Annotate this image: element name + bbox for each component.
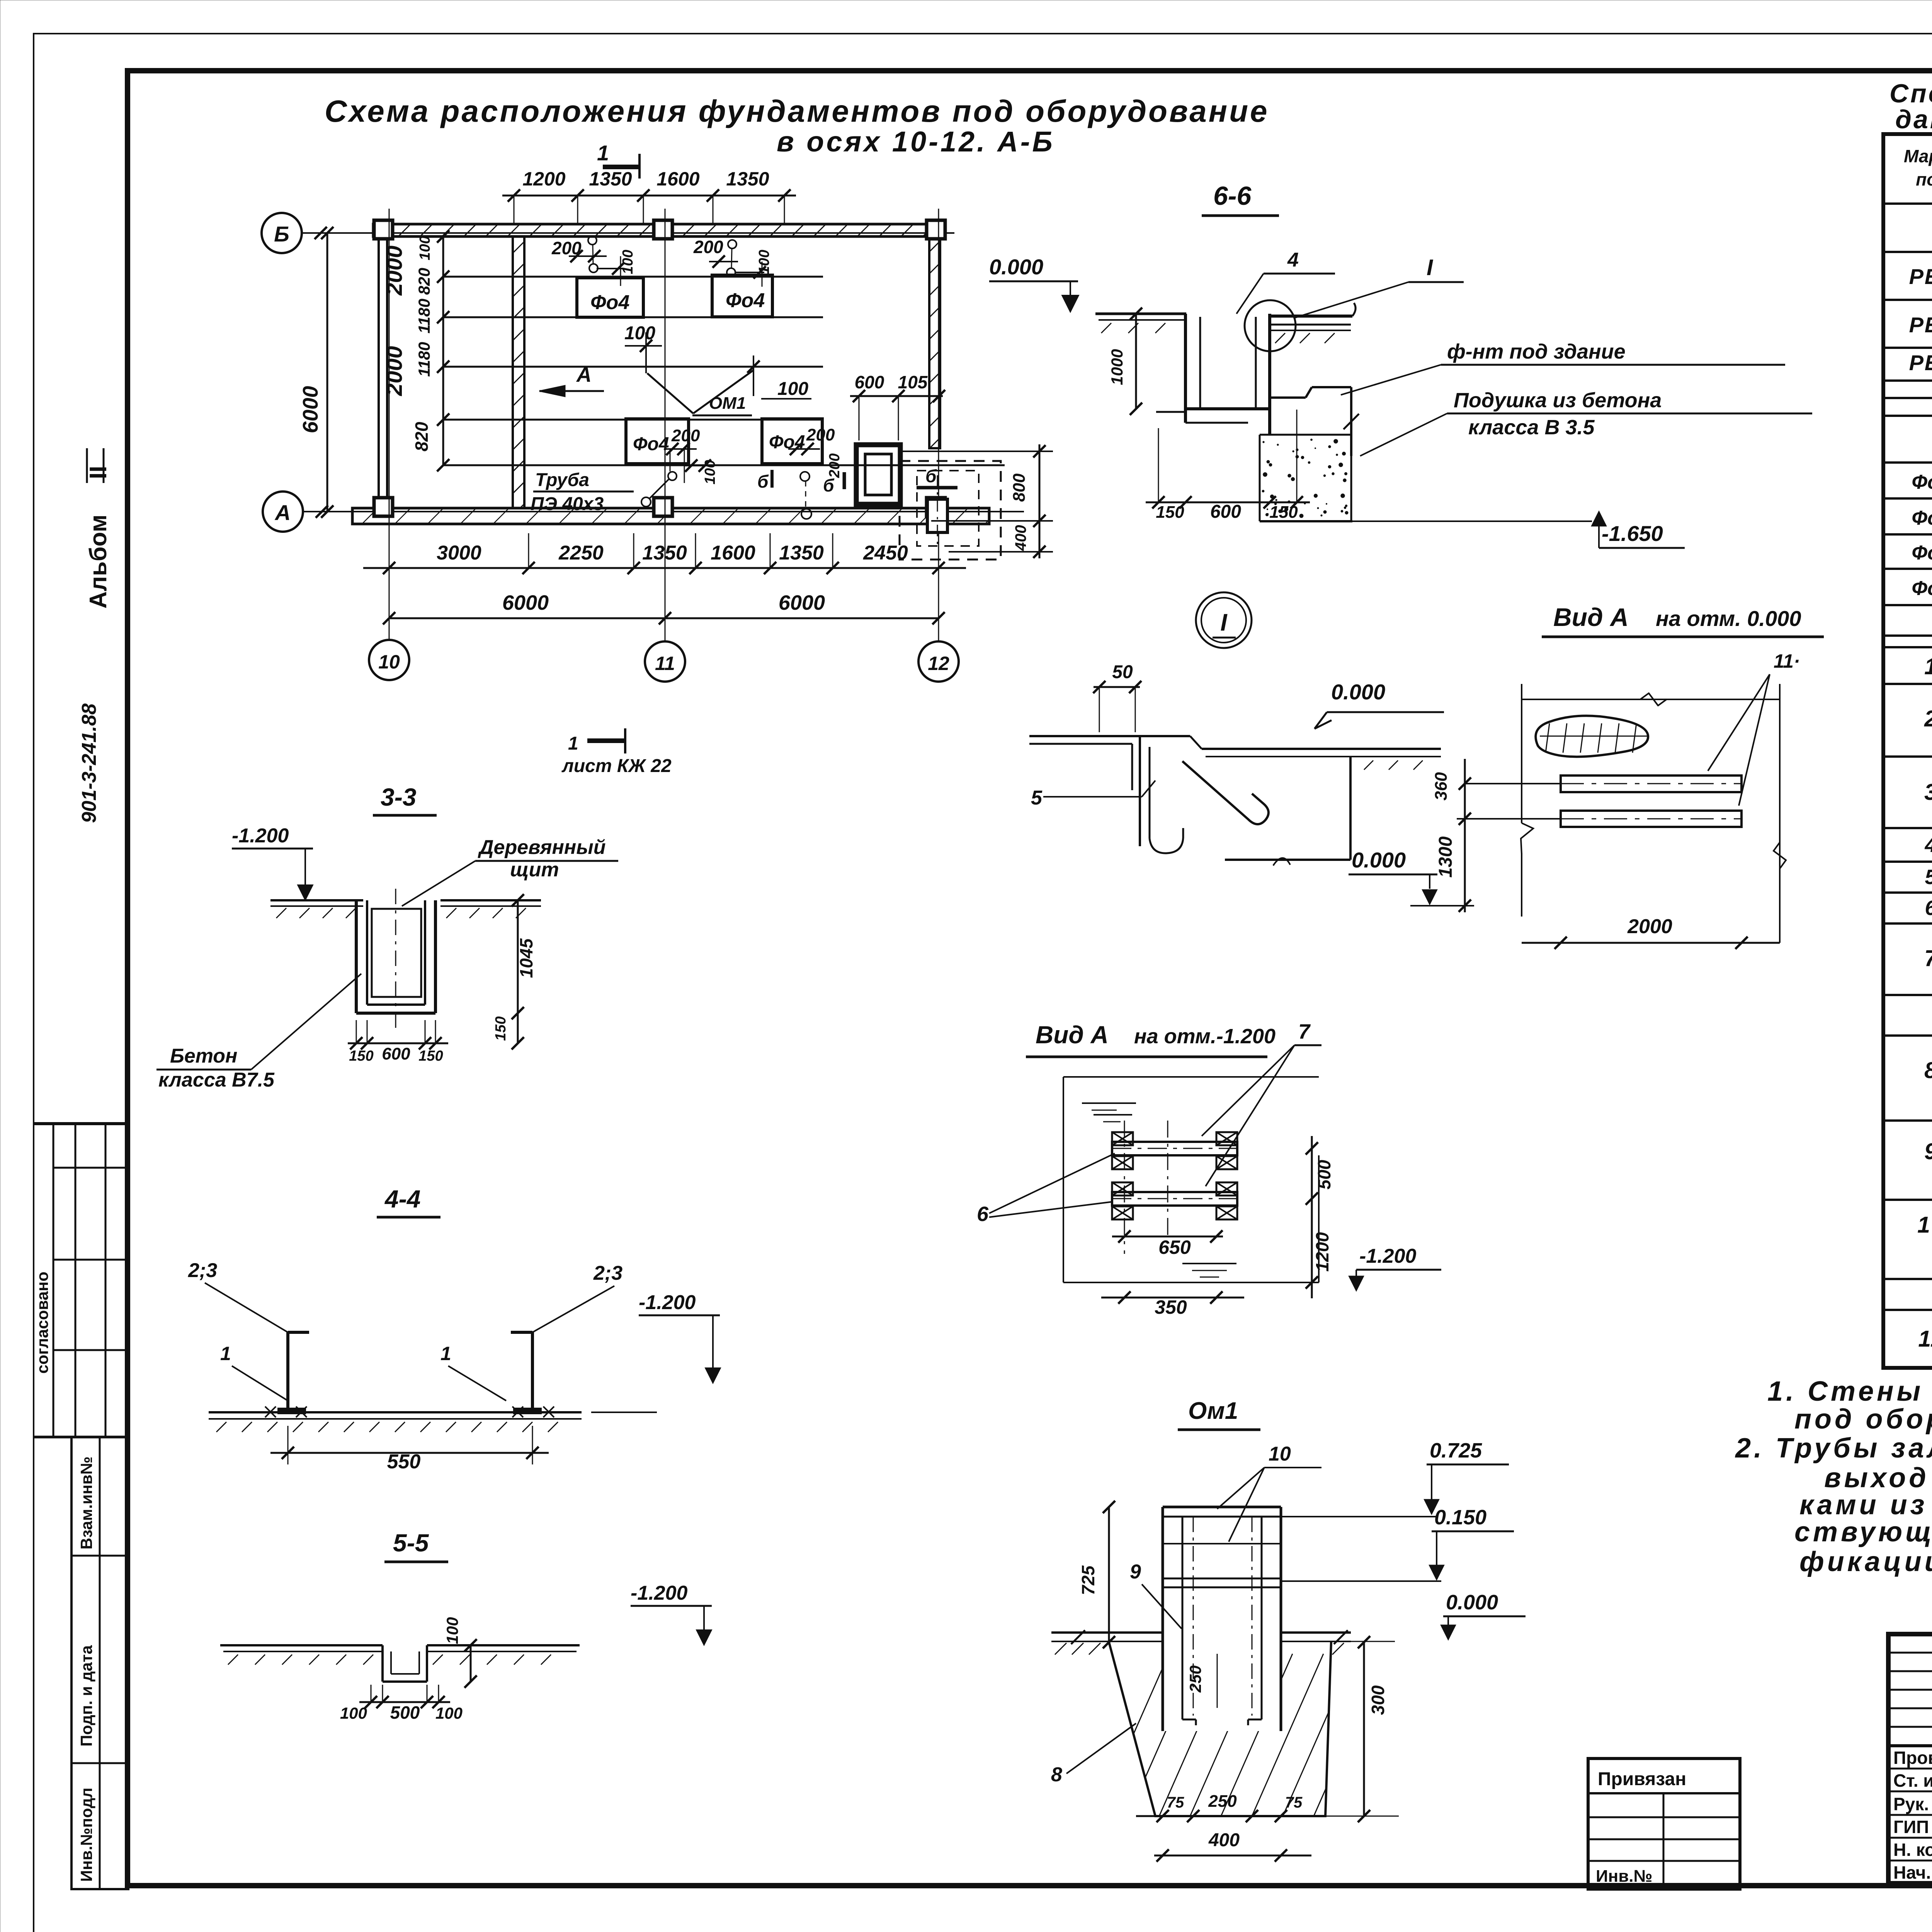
pit (thick square) [856, 445, 900, 504]
svg-text:10: 10 [378, 651, 400, 673]
svg-text:100: 100 [340, 1704, 367, 1722]
svg-text:100: 100 [777, 379, 808, 399]
bottom dim chain row1 [363, 567, 966, 569]
svg-text:6: 6 [977, 1202, 989, 1226]
svg-text:1350: 1350 [642, 542, 687, 564]
leader Om1 [647, 373, 693, 413]
svg-text:Н. контр: Н. контр [1893, 1840, 1932, 1860]
post outline [1163, 1506, 1281, 1509]
svg-text:400: 400 [1012, 525, 1029, 551]
svg-text:100: 100 [435, 1704, 463, 1722]
excavation trapezoid [1109, 1642, 1331, 1816]
foundation Fo4 box 3 [626, 419, 689, 464]
svg-text:фикации на листах ЭАД.: фикации на листах ЭАД. [1799, 1546, 1932, 1577]
svg-text:250: 250 [1186, 1665, 1204, 1693]
floor band hatch [1055, 1643, 1066, 1655]
svg-text:0.000: 0.000 [1352, 848, 1406, 872]
svg-text:поз: поз [1916, 169, 1932, 189]
svg-text:Фо4: Фо4 [590, 291, 629, 314]
dims 1045 150 [517, 900, 519, 1043]
svg-text:ф-нт под здание: ф-нт под здание [1447, 340, 1626, 363]
svg-text:4-4: 4-4 [384, 1185, 421, 1213]
privyazan table [1588, 1759, 1740, 1889]
loaf shaped part [1536, 716, 1648, 757]
dim 550 [270, 1452, 549, 1454]
svg-text:А: А [576, 363, 592, 386]
bar 2 with pads [1112, 1192, 1237, 1206]
svg-text:6000: 6000 [502, 591, 549, 614]
left wall [378, 236, 380, 499]
svg-text:6: 6 [1925, 896, 1932, 920]
svg-text:Подушка из бетона: Подушка из бетона [1454, 389, 1662, 412]
svg-text:Вид А: Вид А [1553, 603, 1629, 631]
detail I circle mark [1196, 592, 1252, 648]
svg-text:РЕ4: РЕ4 [1909, 313, 1932, 337]
top wall (axis B) [373, 224, 945, 236]
svg-text:200: 200 [693, 237, 723, 257]
svg-text:на отм.-1.200: на отм.-1.200 [1134, 1025, 1276, 1048]
column squares [374, 220, 393, 239]
foundation step [1270, 396, 1306, 399]
svg-text:1: 1 [597, 141, 609, 165]
svg-text:2;3: 2;3 [188, 1259, 217, 1282]
svg-text:7: 7 [1298, 1020, 1311, 1043]
dims 150 600 150 [348, 1043, 448, 1044]
dims 75 250 75 [1136, 1815, 1310, 1817]
svg-text:б: б [925, 466, 937, 486]
svg-text:Рук. гр.: Рук. гр. [1893, 1794, 1932, 1814]
floor lines [1051, 1631, 1163, 1634]
floor right of pit [1270, 315, 1352, 318]
svg-text:200: 200 [806, 425, 835, 444]
svg-text:Вид А: Вид А [1036, 1021, 1109, 1049]
svg-text:1350: 1350 [779, 542, 824, 564]
svg-text:Взам.инв№: Взам.инв№ [77, 1456, 95, 1549]
dim 650 [1112, 1236, 1223, 1238]
svg-text:Марка: Марка [1904, 146, 1932, 166]
svg-text:Фо1: Фо1 [1912, 471, 1932, 493]
svg-text:-1.200: -1.200 [631, 1582, 688, 1604]
svg-text:1600: 1600 [656, 168, 699, 190]
dim 350 [1101, 1297, 1244, 1299]
svg-text:II: II [85, 466, 112, 479]
floor lines 4-4 [209, 1411, 582, 1413]
svg-text:600: 600 [855, 372, 884, 392]
svg-text:100: 100 [417, 236, 433, 260]
axis circle B [262, 213, 302, 253]
svg-text:6000: 6000 [779, 591, 825, 614]
svg-text:3: 3 [1924, 779, 1932, 805]
svg-text:725: 725 [1078, 1565, 1098, 1595]
ground line 5-5 [220, 1644, 383, 1646]
svg-text:200: 200 [827, 453, 843, 478]
svg-text:класса В 3.5: класса В 3.5 [1468, 416, 1595, 439]
svg-text:10: 10 [1917, 1212, 1932, 1238]
svg-text:2. Трубы заложить в бетон: 2. Трубы заложить в бетонной подготовке … [1735, 1433, 1932, 1464]
wall axis 12 [929, 236, 940, 448]
svg-text:6000: 6000 [298, 386, 322, 433]
svg-text:Подп. и дата: Подп. и дата [77, 1645, 95, 1747]
svg-text:100: 100 [756, 250, 772, 274]
svg-text:ПЭ 40х3: ПЭ 40х3 [531, 494, 604, 514]
svg-text:-1.650: -1.650 [1602, 521, 1663, 546]
svg-text:Фо4: Фо4 [1912, 577, 1932, 600]
left dim 6000 [327, 233, 328, 512]
svg-text:-1.200: -1.200 [1359, 1245, 1417, 1267]
svg-text:-1.200: -1.200 [232, 825, 289, 847]
svg-text:ОМ1: ОМ1 [709, 394, 746, 413]
svg-text:ствующего диаметра. Трубы у: ствующего диаметра. Трубы учтены в специ… [1794, 1517, 1932, 1548]
svg-text:3000: 3000 [437, 542, 481, 564]
foundation Fo4 box 4 [762, 419, 822, 464]
svg-text:РЕ5: РЕ5 [1909, 350, 1932, 375]
svg-text:РЕ3: РЕ3 [1909, 264, 1932, 289]
axis verticals 10 11 12 [389, 209, 390, 638]
x pads [1112, 1132, 1133, 1145]
rotated dims 800 400 [902, 451, 1053, 452]
svg-text:Бетон: Бетон [170, 1045, 237, 1067]
svg-text:1350: 1350 [726, 168, 769, 190]
svg-text:0.000: 0.000 [1446, 1591, 1498, 1614]
svg-text:150: 150 [493, 1016, 509, 1041]
svg-text:Нач. отд: Нач. отд [1893, 1862, 1932, 1883]
dim 725 [1108, 1507, 1110, 1642]
title block (stamp) [1888, 1634, 1932, 1883]
svg-text:1: 1 [220, 1343, 231, 1364]
svg-text:820: 820 [415, 268, 433, 295]
svg-text:7: 7 [1924, 946, 1932, 971]
svg-text:1600: 1600 [711, 542, 755, 564]
svg-text:Фо4: Фо4 [633, 434, 669, 454]
svg-text:Схема расположения фундамент: Схема расположения фундаментов под обору… [325, 94, 1269, 128]
svg-text:1200: 1200 [1312, 1232, 1332, 1272]
svg-text:I: I [1220, 609, 1228, 636]
svg-text:Фо4: Фо4 [726, 289, 765, 312]
bottom wall (axis A) [352, 508, 989, 524]
svg-text:в осях 10-12. А-Б: в осях 10-12. А-Б [777, 126, 1055, 158]
svg-text:2;3: 2;3 [593, 1262, 622, 1284]
inner band lines [1163, 1543, 1281, 1544]
dim 2000 [1522, 942, 1780, 944]
svg-text:1300: 1300 [1435, 836, 1456, 878]
svg-text:300: 300 [1368, 1685, 1388, 1715]
svg-text:100: 100 [702, 460, 718, 484]
svg-text:4: 4 [1924, 833, 1932, 857]
svg-text:4: 4 [1287, 249, 1299, 271]
channel bar 2 [1561, 811, 1742, 827]
svg-text:Инв.№: Инв.№ [1596, 1867, 1653, 1886]
svg-text:ГИП: ГИП [1893, 1817, 1929, 1837]
bar 1 with pads [1112, 1142, 1237, 1155]
svg-text:100: 100 [620, 250, 636, 274]
svg-text:600: 600 [1210, 502, 1241, 522]
svg-text:щит: щит [510, 859, 559, 881]
svg-text:500: 500 [1314, 1160, 1334, 1189]
svg-text:360: 360 [1432, 772, 1451, 801]
svg-text:800: 800 [1010, 473, 1029, 502]
water marks top [1082, 1102, 1136, 1104]
pit walls 3-3 [355, 900, 358, 1013]
svg-text:б: б [823, 475, 835, 495]
water marks bottom [1182, 1263, 1236, 1264]
svg-text:1. Стены и днища каналов и: 1. Стены и днища каналов и приямков, фун… [1767, 1376, 1932, 1407]
inner walls [1182, 1517, 1184, 1719]
svg-text:500: 500 [390, 1702, 420, 1723]
axis circle A [263, 492, 303, 532]
svg-text:2250: 2250 [558, 542, 604, 564]
svg-text:Ст. инж.: Ст. инж. [1893, 1770, 1932, 1791]
svg-text:9: 9 [1130, 1561, 1141, 1583]
svg-text:согласовано: согласовано [33, 1272, 51, 1374]
hook diagonal [1182, 761, 1269, 824]
svg-text:200: 200 [671, 426, 700, 445]
axis line B [302, 232, 954, 234]
axis line A [303, 511, 1024, 512]
svg-text:250: 250 [1208, 1792, 1237, 1811]
svg-text:9: 9 [1924, 1139, 1932, 1164]
svg-text:1000: 1000 [1108, 349, 1126, 385]
svg-text:150: 150 [418, 1048, 443, 1064]
anchor bolts dashed [1193, 1517, 1194, 1716]
svg-text:б: б [757, 471, 769, 492]
foundation Fo4 box 1 [577, 278, 643, 317]
svg-text:класса В7.5: класса В7.5 [158, 1069, 275, 1091]
svg-text:11·: 11· [1774, 650, 1800, 672]
view frame [1063, 1076, 1319, 1078]
svg-text:400: 400 [1208, 1830, 1240, 1850]
svg-text:Б: Б [274, 222, 289, 246]
svg-text:5: 5 [1925, 866, 1932, 889]
axis bottom circles [389, 568, 390, 640]
ground hatches detail [1364, 760, 1373, 770]
bolt feet [1182, 1719, 1196, 1721]
right dims 500 1200 [1311, 1136, 1313, 1298]
ground line 3-3 [270, 899, 363, 901]
svg-text:Спецификация к схеме распол: Спецификация к схеме расположения емкост… [1889, 79, 1932, 108]
svg-text:5: 5 [1031, 787, 1043, 809]
svg-text:6-6: 6-6 [1213, 181, 1252, 211]
svg-text:100: 100 [443, 1617, 461, 1644]
detail circle I [1245, 300, 1296, 351]
dims 150 600 150 [1146, 502, 1310, 503]
top dimension chain 1200/1350/1600/1350 [502, 195, 796, 197]
left margin approval table [34, 1122, 128, 1125]
svg-text:1: 1 [568, 733, 578, 754]
bottom dim chain row2 6000+6000 [389, 617, 939, 619]
svg-text:901-3-241.88: 901-3-241.88 [78, 704, 100, 823]
svg-text:2000: 2000 [1627, 915, 1672, 938]
svg-text:2000: 2000 [382, 245, 407, 296]
anchor marks [265, 1406, 276, 1417]
svg-text:150: 150 [1156, 503, 1184, 522]
detail plate [1029, 735, 1190, 737]
left margin inv table [71, 1437, 128, 1889]
svg-text:0.000: 0.000 [989, 255, 1043, 279]
svg-text:1: 1 [1924, 654, 1932, 679]
svg-text:11: 11 [655, 653, 675, 674]
dims 100 500 100 [359, 1701, 450, 1703]
svg-text:8: 8 [1924, 1058, 1932, 1083]
svg-text:8: 8 [1051, 1764, 1062, 1786]
svg-text:Альбом: Альбом [85, 515, 112, 609]
svg-text:2000: 2000 [382, 346, 407, 396]
inner dim chain [442, 236, 444, 465]
svg-text:11: 11 [1918, 1326, 1932, 1352]
center dashed [1167, 1121, 1168, 1236]
svg-text:Ом1: Ом1 [1188, 1398, 1238, 1424]
channel 5-5 [381, 1645, 384, 1682]
svg-text:12: 12 [928, 653, 949, 674]
svg-text:Провер.: Провер. [1893, 1748, 1932, 1768]
svg-text:50: 50 [1112, 662, 1133, 682]
svg-text:А: А [274, 500, 291, 525]
svg-text:820: 820 [412, 422, 432, 451]
svg-text:1180: 1180 [415, 342, 433, 377]
channel lines [443, 276, 823, 278]
svg-text:выход труб над полом 200 м: выход труб над полом 200 мм защитить отр… [1824, 1463, 1932, 1493]
pit walls 6-6 [1184, 314, 1187, 423]
section mark 1 (top) [603, 165, 639, 169]
svg-text:0.000: 0.000 [1331, 680, 1385, 704]
svg-text:105: 105 [898, 372, 928, 392]
svg-text:10: 10 [1269, 1443, 1291, 1465]
svg-text:1045: 1045 [516, 938, 536, 978]
svg-text:5-5: 5-5 [393, 1529, 429, 1557]
svg-text:1180: 1180 [415, 299, 433, 333]
block right edge [1349, 757, 1352, 860]
svg-text:под оборудование выполнять из: под оборудование выполнять из бетона кла… [1794, 1404, 1932, 1435]
svg-text:1200: 1200 [522, 168, 565, 190]
channel bar 1 [1561, 776, 1742, 792]
dim 400 [1154, 1855, 1311, 1857]
svg-text:150: 150 [349, 1048, 373, 1064]
svg-text:Фо3: Фо3 [1912, 542, 1932, 564]
svg-text:75: 75 [1285, 1794, 1303, 1811]
svg-text:0.725: 0.725 [1430, 1439, 1482, 1462]
svg-text:3-3: 3-3 [381, 783, 417, 811]
svg-text:на отм. 0.000: на отм. 0.000 [1656, 606, 1801, 631]
svg-text:650: 650 [1158, 1236, 1191, 1258]
dim 300 right [1363, 1642, 1365, 1816]
dashed pit right [900, 461, 1001, 560]
concrete pad [1260, 434, 1352, 436]
svg-text:Привязан: Привязан [1598, 1769, 1686, 1789]
svg-text:600: 600 [382, 1044, 410, 1063]
left dim chain 360 1300 [1464, 759, 1466, 912]
svg-text:даментов под оборудование, к: даментов под оборудование, каналов и при… [1895, 105, 1932, 134]
svg-text:1350: 1350 [589, 168, 632, 190]
specification table grid [1883, 134, 1932, 1368]
svg-text:550: 550 [387, 1451, 421, 1473]
sheet ref marker [587, 738, 625, 743]
svg-text:лист КЖ 22: лист КЖ 22 [561, 756, 672, 776]
svg-text:ками из тонкостенных стальн: ками из тонкостенных стальных труб соотв… [1799, 1490, 1932, 1520]
ground line left 6-6 [1095, 313, 1186, 315]
svg-text:-1.200: -1.200 [639, 1291, 696, 1314]
svg-text:Труба: Труба [535, 470, 589, 490]
svg-text:350: 350 [1155, 1296, 1187, 1318]
view frame [1522, 699, 1780, 700]
svg-text:75: 75 [1167, 1794, 1184, 1811]
dim 1000 [1135, 314, 1137, 409]
svg-text:0.150: 0.150 [1434, 1506, 1486, 1529]
svg-text:150: 150 [1269, 503, 1298, 522]
inner wall 1 [513, 236, 524, 508]
foundation Fo4 box 2 [712, 275, 772, 317]
svg-text:2: 2 [1924, 706, 1932, 731]
svg-text:Деревянный: Деревянный [478, 836, 606, 859]
angle profiles [286, 1332, 289, 1410]
svg-text:1: 1 [440, 1343, 451, 1364]
svg-text:Фо2: Фо2 [1912, 507, 1932, 529]
svg-text:2450: 2450 [863, 542, 908, 564]
svg-text:Инв.№подл: Инв.№подл [77, 1787, 95, 1882]
svg-text:I: I [1427, 255, 1434, 280]
